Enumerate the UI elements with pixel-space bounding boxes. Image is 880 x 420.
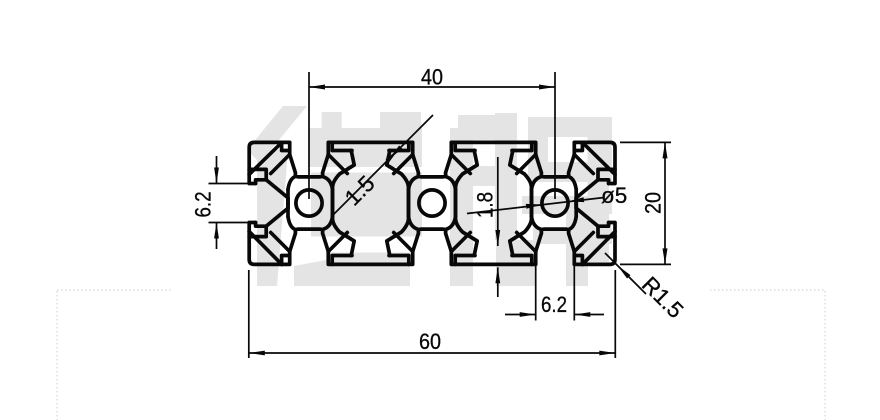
- center bore hole 1: [296, 190, 322, 216]
- slot lips, ledges and wings around hole 2: [389, 142, 409, 150]
- core 2 rounded wall arcs: [409, 177, 418, 190]
- dimension diameter 5: leader line through hole with arrows: [467, 198, 604, 214]
- watermark glyphs (light gray): [247, 106, 307, 163]
- dimension 6.2 left: extension lines: [209, 183, 251, 185]
- right end slot cavity: [598, 169, 615, 183]
- internal vase cavity 2: [456, 151, 532, 256]
- dimension 20: dimension line with arrows: [664, 142, 666, 264]
- dimension R1.5: leader line to corner: [605, 253, 646, 294]
- internal vase cavity 1: [333, 151, 409, 256]
- core 1 rounded wall arcs: [288, 177, 295, 190]
- faint dotted table grid lines: [57, 289, 173, 291]
- center bore hole 3: [542, 190, 568, 216]
- dimension 1.8: dimension line with outside arrows: [497, 157, 499, 246]
- dimension 60: dimension line with arrows: [249, 352, 616, 354]
- dimension 6.2 left: dimension line with outside arrows: [216, 156, 218, 184]
- svg-text:1.8: 1.8: [473, 192, 498, 218]
- svg-text:ø5: ø5: [601, 183, 627, 208]
- svg-text:60: 60: [419, 329, 441, 354]
- slot lips, ledges and wings around hole 3: [512, 142, 532, 150]
- dimension 6.2 bottom: dimension line with outside arrows: [505, 314, 536, 316]
- svg-text:40: 40: [421, 65, 443, 90]
- dimension 40: extension lines from hole centers: [308, 72, 310, 199]
- dimension 20: extension lines: [620, 141, 671, 143]
- center bore hole 2: [419, 190, 445, 216]
- svg-text:20: 20: [641, 192, 666, 214]
- core 3 rounded wall arcs: [532, 177, 541, 190]
- svg-text:6.2: 6.2: [191, 192, 216, 218]
- dimension 1.5: leader line with arrows: [331, 115, 433, 217]
- dimension 40: dimension line with arrows: [309, 86, 555, 88]
- svg-text:6.2: 6.2: [541, 292, 567, 317]
- profile outer silhouette with slot openings: [249, 142, 615, 264]
- dimension 60: extension lines: [248, 270, 250, 358]
- slot lips, ledges and wings around hole 1: [282, 142, 289, 150]
- dimension 6.2 bottom: extension lines: [535, 266, 537, 321]
- left end slot cavity: [249, 169, 266, 183]
